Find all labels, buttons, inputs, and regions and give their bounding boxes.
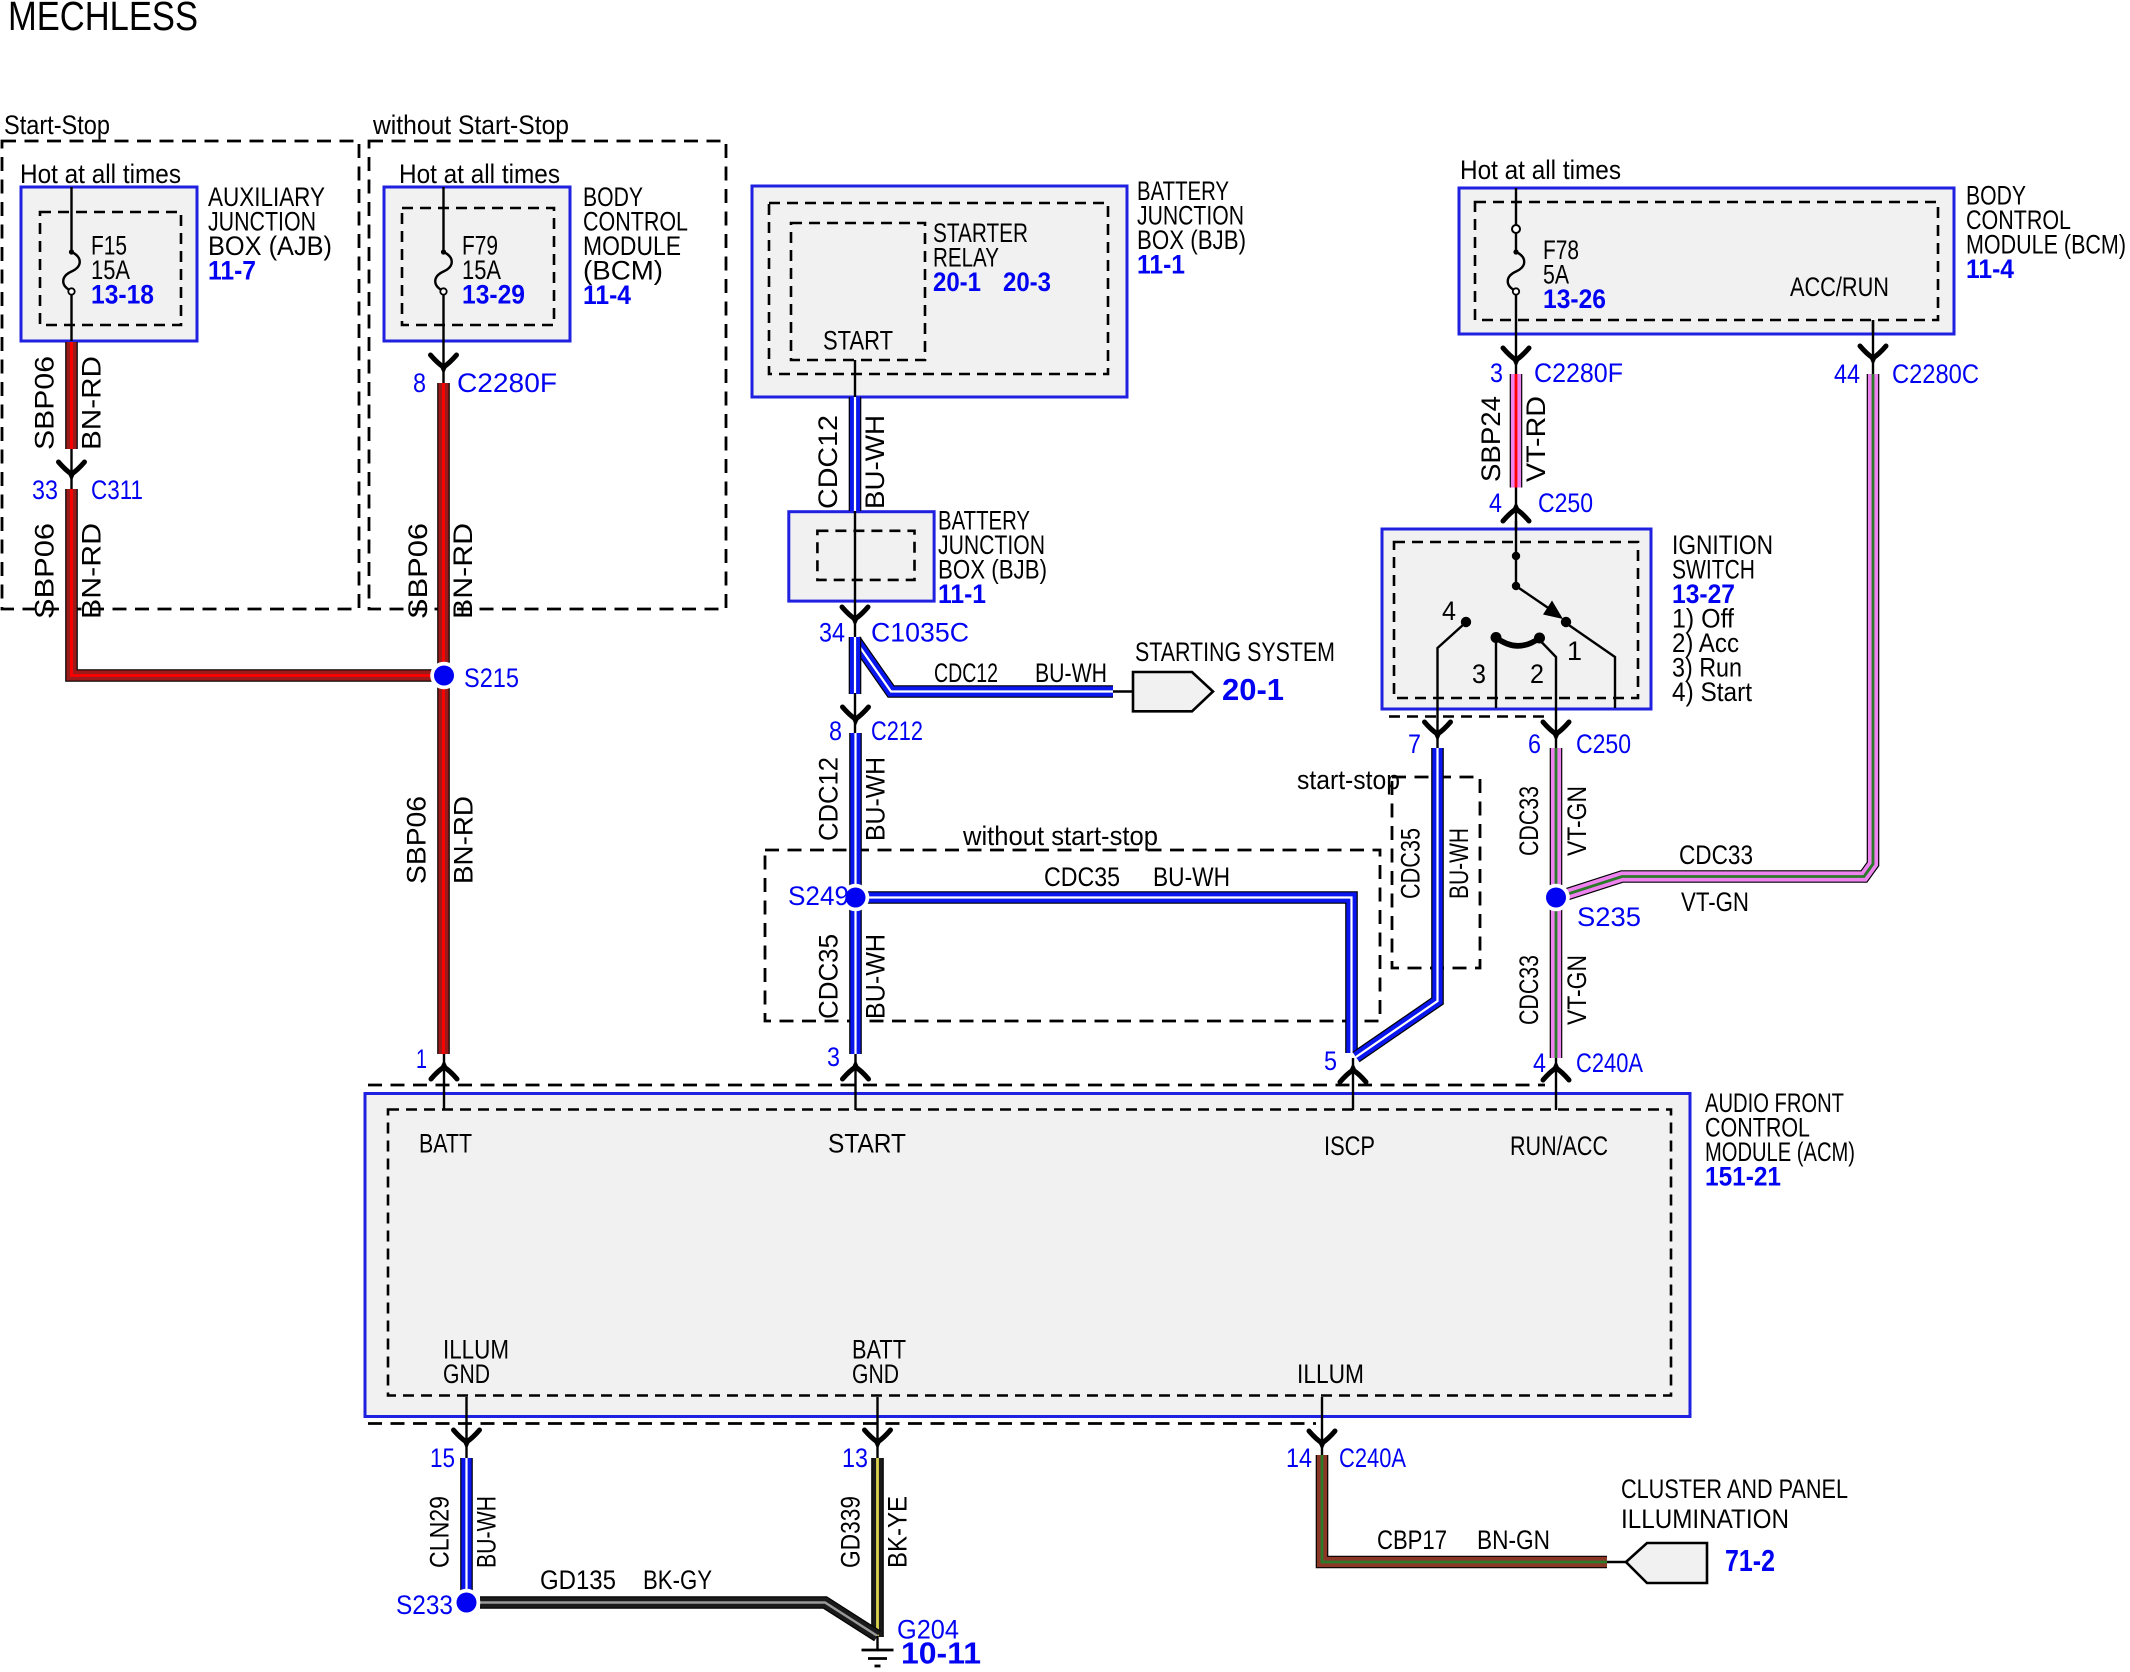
connector C311: [32, 449, 143, 505]
svg-text:ACC/RUN: ACC/RUN: [1790, 272, 1889, 302]
fuse F15: [63, 187, 80, 341]
ignition switch internals: [1438, 521, 1616, 709]
wire labels CDC12 BU-WH (branch): [934, 658, 1107, 688]
svg-text:20-3: 20-3: [1003, 267, 1051, 297]
pointer CLUSTER AND PANEL ILLUMINATION 71-2: [1607, 1474, 1848, 1583]
starter relay box: [791, 223, 925, 360]
label BATTERY JUNCTION BOX (BJB) 11-1 (small): [938, 506, 1047, 610]
svg-text:SBP06: SBP06: [30, 356, 60, 450]
svg-text:CDC35: CDC35: [1044, 862, 1120, 892]
svg-text:SBP06: SBP06: [30, 523, 60, 619]
connector C2280F (8, left BCM): [413, 341, 557, 398]
wire labels CBP17 BN-GN: [1377, 1525, 1550, 1555]
splice S215: [430, 662, 519, 693]
svg-text:C311: C311: [91, 475, 143, 505]
ignition switch wiper arc: [1496, 638, 1540, 646]
svg-text:CLN29: CLN29: [425, 1496, 455, 1568]
ACM pin 14 connector C240A: [1286, 1397, 1406, 1473]
pin 6 connector C250: [1528, 709, 1631, 759]
option box start-stop (dashed, right): [1392, 777, 1480, 968]
wire labels CDC33 VT-GN (below S235): [1514, 955, 1592, 1025]
svg-text:ILLUM: ILLUM: [1297, 1359, 1364, 1389]
wire labels SBP24 VT-RD: [1476, 396, 1551, 482]
label BODY CONTROL MODULE (BCM) 11-4 (right): [1966, 181, 2126, 285]
svg-text:13-18: 13-18: [91, 280, 154, 310]
box IGNITION SWITCH: [1382, 529, 1651, 709]
connector C2280C (44): [1834, 320, 1979, 389]
ACM connector boundary dashes bottom: [368, 1422, 1316, 1425]
svg-text:4: 4: [1442, 596, 1456, 626]
wire SBP06 BN-RD (BCM to S215 to ACM pin 1): [437, 383, 450, 1054]
svg-text:BU-WH: BU-WH: [1153, 862, 1230, 892]
wire labels CDC12 BU-WH (C212 seg): [814, 757, 891, 841]
svg-text:4) Start: 4) Start: [1672, 677, 1752, 707]
box BCM left (body control module): [384, 187, 570, 341]
svg-text:11-4: 11-4: [583, 280, 631, 310]
svg-text:START: START: [828, 1129, 906, 1159]
svg-text:20-1: 20-1: [933, 267, 981, 297]
wire labels CDC35 BU-WH (below S249): [814, 934, 891, 1019]
wire SBP24 VT-RD (C2280F to C250): [1510, 374, 1523, 488]
svg-text:15: 15: [430, 1443, 455, 1473]
svg-text:SBP24: SBP24: [1476, 396, 1506, 482]
svg-text:13: 13: [842, 1443, 868, 1473]
wire labels SBP06 BN-RD seg2: [30, 523, 107, 619]
svg-text:VT-GN: VT-GN: [1562, 786, 1592, 856]
label AUDIO FRONT CONTROL MODULE (ACM) 151-21: [1705, 1088, 1855, 1192]
svg-text:BK-GY: BK-GY: [643, 1565, 712, 1595]
svg-text:BN-RD: BN-RD: [449, 796, 479, 884]
svg-text:STARTING SYSTEM: STARTING SYSTEM: [1135, 637, 1335, 667]
svg-text:CDC35: CDC35: [814, 934, 844, 1019]
svg-text:1: 1: [1567, 636, 1582, 666]
label STARTER RELAY 20-1 20-3: [933, 218, 1051, 297]
svg-text:without start-stop: without start-stop: [962, 821, 1158, 851]
svg-text:ILLUMINATION: ILLUMINATION: [1621, 1504, 1789, 1534]
splice S233: [396, 1589, 480, 1620]
svg-text:14: 14: [1286, 1443, 1312, 1473]
connector boundary dashes below ignition switch: [1389, 715, 1548, 718]
svg-text:5: 5: [1324, 1046, 1337, 1076]
svg-text:GD135: GD135: [540, 1565, 616, 1595]
svg-text:C2280C: C2280C: [1892, 359, 1979, 389]
wire labels CDC35 BU-WH (pin 7): [1396, 828, 1475, 899]
svg-text:C1035C: C1035C: [871, 618, 969, 648]
svg-text:C240A: C240A: [1576, 1048, 1643, 1078]
wire labels CDC12 BU-WH (top): [813, 415, 890, 509]
label BODY CONTROL MODULE (BCM) 11-4 (left): [583, 182, 688, 310]
svg-text:11-1: 11-1: [938, 579, 986, 609]
svg-text:8: 8: [829, 716, 842, 746]
svg-text:C250: C250: [1576, 729, 1631, 759]
connector C2280F (3, right BCM): [1490, 334, 1623, 388]
label AUXILIARY JUNCTION BOX (AJB) 11-7: [208, 182, 332, 286]
label IGNITION SWITCH 13-27 positions: [1672, 530, 1773, 707]
wire CDC12 BU-WH (C212 to S249): [849, 733, 862, 886]
svg-text:C2280F: C2280F: [1534, 358, 1623, 388]
wire labels GD339 BK-YE: [836, 1496, 913, 1568]
svg-text:7: 7: [1408, 729, 1421, 759]
svg-text:BU-WH: BU-WH: [1035, 658, 1107, 688]
svg-text:BU-WH: BU-WH: [1444, 828, 1474, 899]
svg-text:S233: S233: [396, 1590, 453, 1620]
pin 7 connector: [1408, 709, 1451, 759]
svg-text:44: 44: [1834, 359, 1860, 389]
ground G204: [862, 1615, 982, 1671]
svg-text:GND: GND: [443, 1359, 490, 1389]
wire SBP06 BN-RD (AJB to C311): [65, 342, 78, 449]
option box without Start-Stop (dashed): [369, 141, 726, 609]
ACM pin 1 connector: [416, 1044, 457, 1110]
svg-text:11-7: 11-7: [208, 256, 256, 286]
svg-text:C240A: C240A: [1339, 1443, 1406, 1473]
svg-text:C2280F: C2280F: [457, 368, 557, 398]
wire CDC12 BU-WH (BJB to small BJB): [849, 397, 862, 511]
svg-text:BK-YE: BK-YE: [883, 1496, 913, 1568]
svg-text:VT-RD: VT-RD: [1521, 396, 1551, 482]
connector C212 (8): [829, 693, 923, 746]
wire CDC35 BU-WH (S249 horizontal to pin 5): [866, 898, 1352, 1054]
splice S249: [788, 881, 869, 911]
ACM pin 4 connector C240A: [1533, 1048, 1643, 1110]
svg-text:start-stop: start-stop: [1297, 765, 1400, 795]
wire labels CDC35 BU-WH (horizontal): [1044, 862, 1230, 892]
svg-text:VT-GN: VT-GN: [1681, 887, 1749, 917]
svg-text:20-1: 20-1: [1222, 672, 1284, 707]
wire GD339 BK-YE (pin 13 to ground): [871, 1458, 884, 1637]
svg-text:BU-WH: BU-WH: [861, 934, 891, 1019]
svg-text:CDC33: CDC33: [1514, 955, 1544, 1025]
wire CLN29 BU-WH (pin 15 to S233): [460, 1458, 473, 1592]
svg-text:3: 3: [1490, 358, 1503, 388]
svg-text:CDC33: CDC33: [1679, 840, 1753, 870]
svg-text:BN-RD: BN-RD: [448, 523, 478, 619]
wire CDC33 VT-GN (pin 6 through S235 to ACM pin 4): [1550, 748, 1563, 1058]
ACM pin 3 connector: [827, 1042, 869, 1110]
svg-text:S249: S249: [788, 881, 849, 911]
svg-text:2: 2: [1530, 659, 1544, 689]
svg-text:4: 4: [1533, 1048, 1546, 1078]
pin START of starter relay: [823, 326, 893, 398]
pin ACC/RUN of BCM: [1790, 272, 1889, 334]
wire labels GD135 BK-GY: [540, 1565, 712, 1595]
svg-text:3: 3: [1472, 659, 1486, 689]
svg-text:4: 4: [1489, 488, 1502, 518]
svg-text:S215: S215: [464, 663, 519, 693]
option box Start-Stop (dashed): [2, 141, 1480, 1021]
wire CDC33 VT-GN (C2280C 44 to S235): [1560, 374, 1873, 897]
svg-text:GND: GND: [852, 1359, 899, 1389]
option box without start-stop (dashed, middle): [765, 850, 1380, 1021]
connector C250 (4, up arrow): [1489, 488, 1593, 530]
wire labels SBP06 BN-RD (BCM branch): [403, 523, 478, 619]
fuse F79: [435, 187, 452, 341]
wire CDC12 BU-WH branch to starting system: [855, 640, 1113, 692]
wire labels SBP06 BN-RD (S215 to ACM): [402, 796, 479, 884]
wire CDC35 BU-WH (ignition pin 7 branch): [1356, 748, 1438, 1057]
svg-text:GD339: GD339: [836, 1496, 866, 1568]
fuse F78: [1508, 188, 1525, 334]
svg-text:BN-RD: BN-RD: [77, 523, 107, 619]
svg-text:BN-GN: BN-GN: [1477, 1525, 1550, 1555]
svg-text:SBP06: SBP06: [403, 523, 433, 619]
wire labels SBP06 BN-RD seg1: [30, 356, 107, 450]
splice S235: [1542, 884, 1641, 932]
wire CBP17 BN-GN (pin 14 to cluster pointer): [1322, 1455, 1607, 1562]
svg-text:Hot at all times: Hot at all times: [20, 159, 181, 189]
svg-text:VT-GN: VT-GN: [1562, 955, 1592, 1025]
svg-text:without Start-Stop: without Start-Stop: [372, 110, 569, 140]
svg-text:START: START: [823, 326, 893, 356]
svg-text:10-11: 10-11: [901, 1636, 981, 1671]
svg-text:CLUSTER AND PANEL: CLUSTER AND PANEL: [1621, 1474, 1848, 1504]
svg-text:11-1: 11-1: [1137, 250, 1185, 280]
connector C1035C (34): [819, 607, 969, 648]
svg-text:11-4: 11-4: [1966, 254, 2014, 284]
wire SBP06 BN-RD (C311 to S215): [72, 489, 435, 676]
svg-text:CDC12: CDC12: [813, 415, 843, 509]
svg-text:151-21: 151-21: [1705, 1162, 1781, 1192]
wire labels CDC33 VT-GN (horizontal): [1679, 840, 1753, 917]
svg-text:BU-WH: BU-WH: [861, 757, 891, 841]
svg-text:S235: S235: [1577, 902, 1641, 932]
ACM pin 13 connector: [842, 1397, 891, 1473]
wire labels CDC33 VT-GN (above S235): [1514, 786, 1592, 856]
box BJB top (battery junction box): [752, 186, 1127, 397]
svg-text:MECHLESS: MECHLESS: [8, 0, 198, 39]
svg-text:SBP06: SBP06: [402, 796, 432, 884]
svg-text:1: 1: [416, 1044, 427, 1074]
svg-text:BU-WH: BU-WH: [860, 415, 890, 509]
svg-text:6: 6: [1528, 729, 1541, 759]
svg-text:Hot at all times: Hot at all times: [1460, 155, 1621, 185]
svg-text:RUN/ACC: RUN/ACC: [1510, 1131, 1608, 1161]
svg-text:CDC12: CDC12: [934, 658, 998, 688]
wire CDC35 BU-WH (S249 to ACM pin 3): [849, 908, 862, 1054]
wire labels CLN29 BU-WH: [425, 1496, 502, 1568]
svg-text:C250: C250: [1538, 488, 1593, 518]
svg-text:CDC35: CDC35: [1396, 828, 1426, 899]
svg-text:71-2: 71-2: [1725, 1543, 1775, 1578]
box ACM (audio front control module): [365, 1094, 1690, 1417]
svg-text:CDC12: CDC12: [814, 757, 844, 841]
ACM pin 15 connector: [430, 1397, 480, 1473]
svg-text:C212: C212: [871, 716, 923, 746]
wire GD135 BK-GY (S233 to ground): [480, 1603, 878, 1637]
box BJB small (battery junction box): [789, 512, 934, 601]
svg-text:ISCP: ISCP: [1324, 1131, 1375, 1161]
box BCM right (body control module): [1459, 188, 1954, 334]
svg-text:13-26: 13-26: [1543, 284, 1606, 314]
svg-text:13-29: 13-29: [462, 280, 525, 310]
box AJB (auxiliary junction box): [21, 187, 197, 341]
svg-text:BU-WH: BU-WH: [472, 1496, 502, 1568]
svg-text:CDC33: CDC33: [1514, 786, 1544, 856]
svg-text:3: 3: [827, 1042, 840, 1072]
wire stub through BJB small: [854, 511, 856, 637]
svg-text:CBP17: CBP17: [1377, 1525, 1447, 1555]
svg-text:Hot at all times: Hot at all times: [399, 159, 560, 189]
ACM connector boundary dashes top: [368, 1084, 1545, 1087]
svg-text:Start-Stop: Start-Stop: [4, 110, 110, 140]
svg-text:BN-RD: BN-RD: [77, 356, 107, 450]
wire CDC12 BU-WH (C1035C to C212): [849, 637, 862, 694]
label BATTERY JUNCTION BOX (BJB) 11-1 (top): [1137, 176, 1246, 280]
svg-text:33: 33: [32, 475, 58, 505]
svg-text:34: 34: [819, 618, 845, 648]
svg-text:BATT: BATT: [419, 1129, 472, 1159]
svg-text:8: 8: [413, 368, 426, 398]
pointer STARTING SYSTEM 20-1: [1113, 637, 1335, 711]
ACM pin 5 connector: [1324, 1046, 1366, 1110]
